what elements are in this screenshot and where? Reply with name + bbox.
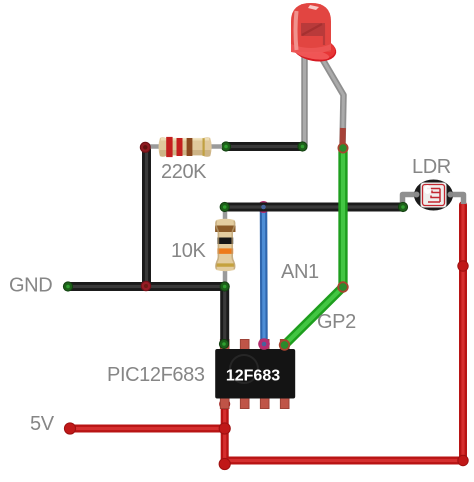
svg-text:12F683: 12F683: [226, 368, 280, 385]
svg-text:AN1: AN1: [281, 261, 319, 283]
svg-text:PIC12F683: PIC12F683: [107, 364, 205, 386]
svg-text:10K: 10K: [171, 240, 206, 262]
svg-text:GP2: GP2: [317, 311, 356, 333]
svg-text:5V: 5V: [30, 413, 55, 435]
svg-text:LDR: LDR: [412, 156, 451, 178]
svg-text:220K: 220K: [161, 161, 207, 183]
svg-text:GND: GND: [9, 275, 52, 297]
